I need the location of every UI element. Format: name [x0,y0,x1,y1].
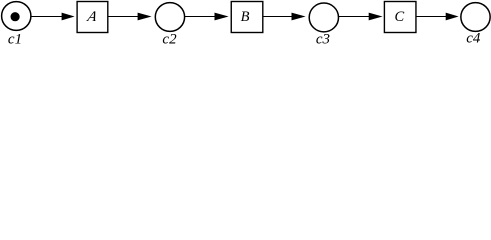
svg-text:c4: c4 [466,31,481,47]
svg-text:c1: c1 [8,32,22,47]
svg-text:B: B [241,9,250,25]
svg-text:c2: c2 [162,32,177,47]
svg-text:C: C [394,9,404,25]
svg-text:c3: c3 [316,32,330,47]
